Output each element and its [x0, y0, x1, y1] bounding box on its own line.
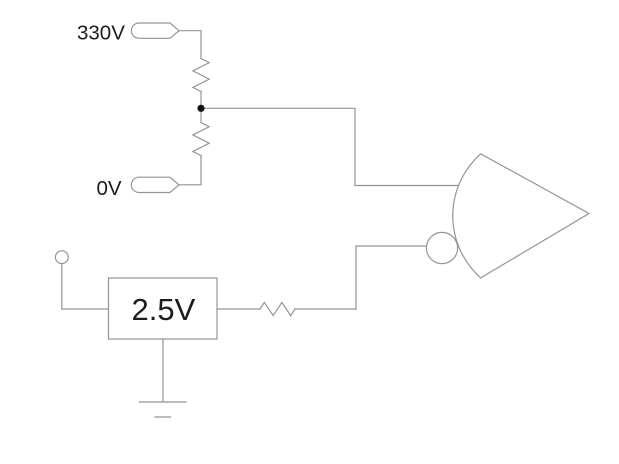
wire resistor R3 to vertical riser: [295, 308, 356, 310]
wire from 330V flag tip to resistor top: [179, 31, 201, 59]
wire 2.5V box to ground: [162, 339, 164, 402]
resistor R3 (horizontal): [260, 302, 295, 315]
resistor R2 (lower divider): [193, 123, 209, 156]
wire node to upper gun input: [201, 108, 459, 185]
resistor R1 (upper divider): [193, 59, 209, 92]
input terminal circle: [55, 251, 68, 264]
node A (junction dot): [197, 105, 204, 112]
svg-text:2.5V: 2.5V: [132, 292, 196, 327]
ground: [140, 401, 187, 403]
terminal flag 0V: [131, 177, 179, 192]
wire resistor R1 to node: [200, 92, 202, 109]
CRT gun U1: [453, 154, 589, 278]
wire resistor R2 to 0V flag: [179, 156, 201, 185]
svg-text:0V: 0V: [97, 177, 122, 200]
wire node to resistor R2: [200, 108, 202, 122]
inverting bubble on gun: [426, 232, 457, 263]
terminal flag 330V: [131, 23, 179, 38]
wire 2.5V box to resistor R3: [217, 308, 260, 310]
svg-text:330V: 330V: [77, 22, 125, 45]
wire from resistor R3 up to bubble: [356, 246, 426, 309]
wire terminal to 2.5V box: [62, 264, 109, 309]
2.5V reference box: [109, 278, 218, 339]
